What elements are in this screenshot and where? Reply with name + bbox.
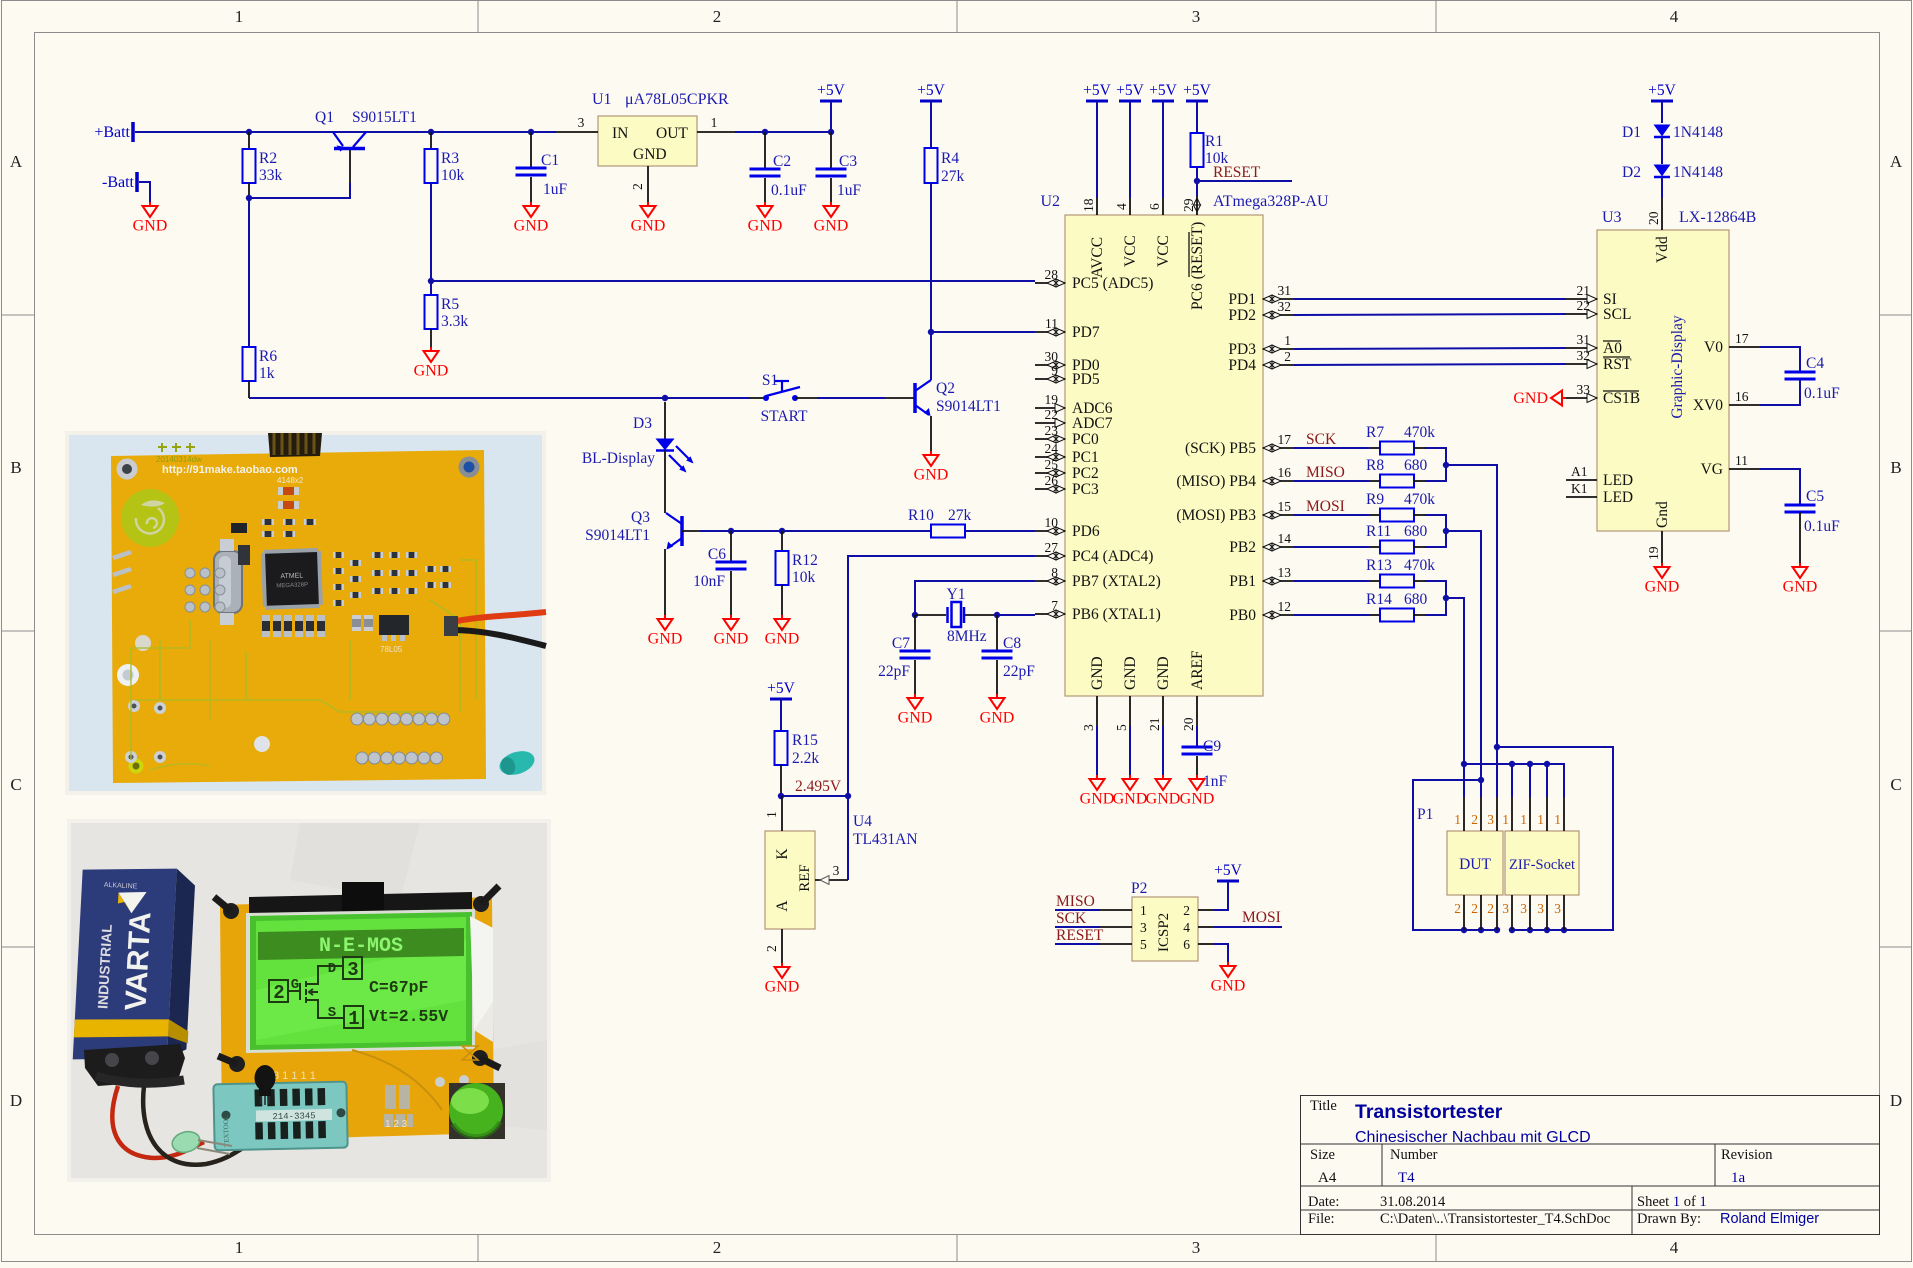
ground U4: [781, 963, 783, 967]
svg-text:PD5: PD5: [1072, 371, 1100, 388]
svg-text:12: 12: [1278, 599, 1292, 614]
svg-text:2: 2: [1471, 901, 1478, 916]
svg-text:U4: U4: [853, 813, 872, 830]
wire R6 to S1: [248, 381, 250, 398]
svg-text:3: 3: [1140, 920, 1147, 935]
capacitor C2: [764, 132, 766, 168]
svg-text:GND: GND: [914, 467, 949, 484]
svg-text:214-3345: 214-3345: [272, 1111, 315, 1122]
svg-text:IN: IN: [612, 125, 628, 142]
svg-text:Q3: Q3: [631, 509, 650, 526]
svg-text:20: 20: [1181, 717, 1196, 731]
svg-text:13: 13: [1278, 565, 1292, 580]
ground C2: [764, 202, 766, 206]
resistor R12: [781, 531, 783, 551]
svg-text:GND: GND: [1155, 656, 1172, 690]
U2 pin 14 PB2: [1263, 546, 1294, 548]
svg-text:Number: Number: [1390, 1147, 1438, 1163]
wire SI net: [1294, 298, 1566, 300]
U2 pin 13 PB1: [1263, 580, 1294, 582]
svg-text:32: 32: [1577, 348, 1591, 363]
wire R9/R11 node to DUT pin 2: [1425, 515, 1446, 547]
svg-text:ADC7: ADC7: [1072, 415, 1113, 432]
node C2 junction: [762, 129, 768, 135]
U2 pin 5 GND: [1129, 696, 1131, 726]
svg-text:4148x2: 4148x2: [277, 476, 304, 485]
ground C9/AREF: [1196, 775, 1198, 779]
ground C3: [830, 202, 832, 206]
svg-text:1a: 1a: [1731, 1170, 1746, 1186]
svg-text:RESET: RESET: [1213, 164, 1261, 181]
svg-text:1N4148: 1N4148: [1673, 164, 1723, 181]
svg-text:10k: 10k: [441, 167, 465, 184]
resistor R4: [925, 148, 938, 183]
ground U2 pin3: [1096, 775, 1098, 779]
svg-text:LX-12864B: LX-12864B: [1679, 209, 1756, 226]
svg-text:Revision: Revision: [1721, 1147, 1773, 1163]
wire R7/R8 node to DUT pin 3: [1425, 448, 1446, 481]
wire +Batt to U1 IN: [135, 131, 556, 133]
svg-text:S9015LT1: S9015LT1: [352, 109, 417, 126]
wire Q3 emitter to ground: [664, 549, 666, 615]
node R4/PD7 junction: [928, 329, 934, 335]
svg-text:20: 20: [1646, 211, 1661, 225]
svg-text:PD6: PD6: [1072, 523, 1100, 540]
svg-text:10k: 10k: [792, 569, 816, 586]
svg-text:G: G: [291, 977, 299, 993]
svg-text:S9014LT1: S9014LT1: [585, 527, 650, 544]
svg-text:C=67pF: C=67pF: [369, 978, 428, 997]
U2 pin 7 PB6 (XTAL1): [1035, 613, 1065, 615]
svg-text:D2: D2: [1622, 164, 1641, 181]
svg-text:1 2 3: 1 2 3: [385, 1119, 408, 1130]
node R3/R5/PC5 junction: [428, 278, 434, 284]
svg-text:27k: 27k: [948, 507, 972, 524]
svg-text:C7: C7: [892, 635, 910, 652]
svg-text:+5V: +5V: [1214, 862, 1242, 879]
svg-text:AVCC: AVCC: [1089, 237, 1106, 278]
svg-text:29: 29: [1181, 198, 1196, 212]
U2 pin 10 PD6: [1035, 530, 1065, 532]
wire PC5 net: [431, 280, 1035, 282]
svg-text:K: K: [774, 848, 791, 860]
P1 top pin 1: [1529, 797, 1531, 831]
wire R13/R14 node to DUT pin 1: [1425, 581, 1446, 615]
svg-text:+5V: +5V: [1116, 82, 1144, 99]
U2 pin 1 PD3: [1263, 348, 1294, 350]
P1 bottom pin 3: [1529, 895, 1531, 930]
svg-text:PB2: PB2: [1229, 539, 1256, 556]
svg-text:GND: GND: [748, 218, 783, 235]
U3 pin 11 VG: [1729, 468, 1760, 470]
svg-text:PC2: PC2: [1072, 465, 1099, 482]
P1 top pin 1: [1511, 797, 1513, 831]
svg-text:SCK: SCK: [1306, 431, 1337, 448]
svg-text:ATmega328P-AU: ATmega328P-AU: [1213, 193, 1329, 210]
svg-text:5: 5: [1140, 937, 1147, 952]
svg-text:+5V: +5V: [1648, 82, 1676, 99]
svg-text:3.3k: 3.3k: [441, 313, 468, 330]
svg-text:C5: C5: [1806, 488, 1824, 505]
svg-text:2: 2: [630, 183, 645, 190]
svg-text:SCK: SCK: [1056, 910, 1087, 927]
wire PB6 net: [997, 614, 1035, 616]
svg-text:+5V: +5V: [817, 82, 845, 99]
svg-text:0.1uF: 0.1uF: [1804, 518, 1840, 535]
svg-text:GND: GND: [414, 363, 449, 380]
wire Q3 base net: [682, 530, 700, 532]
svg-text:R9: R9: [1366, 491, 1384, 508]
svg-text:MISO: MISO: [1306, 464, 1345, 481]
svg-text:GND: GND: [1645, 579, 1680, 596]
svg-text:3: 3: [1487, 812, 1494, 827]
svg-text:AREF: AREF: [1189, 650, 1206, 690]
svg-text:Title: Title: [1310, 1098, 1337, 1114]
resistor R14: [1294, 614, 1369, 616]
P2 pin 4: [1198, 926, 1214, 928]
svg-text:U2: U2: [1040, 193, 1060, 210]
svg-text:2: 2: [1454, 901, 1461, 916]
node D3 junction: [662, 395, 668, 401]
svg-text:14: 14: [1278, 531, 1292, 546]
U1 pin 3: [556, 131, 598, 133]
svg-text:19: 19: [1646, 546, 1661, 560]
svg-text:7: 7: [1051, 598, 1058, 613]
svg-text:GND: GND: [133, 218, 168, 235]
svg-text:GND: GND: [1180, 791, 1215, 808]
svg-text:Date:: Date:: [1308, 1194, 1339, 1210]
capacitor C9: [1196, 726, 1198, 746]
ground U2 pin21: [1162, 775, 1164, 779]
svg-text:R5: R5: [441, 296, 459, 313]
svg-text:VG: VG: [1701, 461, 1723, 478]
svg-text:ZIF-Socket: ZIF-Socket: [1509, 857, 1575, 873]
wire R3 bottom to R5 / PC5 node: [430, 183, 432, 295]
svg-text:17: 17: [1735, 331, 1749, 346]
svg-text:3: 3: [1192, 1238, 1201, 1257]
ground U1: [647, 202, 649, 206]
svg-text:Size: Size: [1310, 1147, 1335, 1163]
U3 pin 21 SI: [1566, 298, 1597, 300]
svg-text:PC4 (ADC4): PC4 (ADC4): [1072, 548, 1153, 565]
svg-text:GND: GND: [631, 218, 666, 235]
svg-text:MISO: MISO: [1056, 893, 1095, 910]
U2 pin 27 PC4 (ADC4): [1035, 555, 1065, 557]
svg-text:4: 4: [1670, 7, 1679, 26]
svg-text:1N4148: 1N4148: [1673, 124, 1723, 141]
svg-text:16: 16: [1735, 389, 1749, 404]
svg-text:File:: File:: [1308, 1211, 1335, 1227]
resistor R1: [1191, 133, 1204, 167]
U2 pin 16 (MISO) PB4: [1263, 480, 1294, 482]
svg-text:3: 3: [347, 959, 358, 981]
svg-text:OUT: OUT: [656, 125, 688, 142]
wire D2 to U3 Vdd: [1661, 177, 1663, 198]
svg-text:22pF: 22pF: [1003, 663, 1035, 680]
svg-text:+5V: +5V: [1083, 82, 1111, 99]
svg-text:A1: A1: [1571, 464, 1588, 479]
P1 bottom pin 3: [1511, 895, 1513, 930]
svg-text:1: 1: [1520, 812, 1527, 827]
P1 top pin 1: [1463, 797, 1465, 831]
wire DUT bottom bus: [1461, 927, 1467, 933]
U2 pin 15 (MOSI) PB3: [1263, 514, 1294, 516]
svg-text:3: 3: [1537, 901, 1544, 916]
U3 pin 31 A0: [1566, 347, 1597, 349]
svg-text:25: 25: [1045, 457, 1059, 472]
svg-text:27: 27: [1045, 540, 1059, 555]
resistor R11: [1294, 546, 1369, 548]
svg-text:26: 26: [1045, 473, 1059, 488]
svg-text:11: 11: [1045, 316, 1058, 331]
P1 top pin 1: [1546, 797, 1548, 831]
svg-text:C2: C2: [773, 153, 791, 170]
svg-text:GND: GND: [1089, 656, 1106, 690]
svg-text:GND: GND: [714, 631, 749, 648]
node R2/R6/Q1-base junction: [246, 195, 252, 201]
U2 pin 21 GND: [1162, 696, 1164, 726]
svg-text:1: 1: [764, 811, 779, 818]
ground C8: [996, 694, 998, 698]
svg-text:19: 19: [1045, 392, 1059, 407]
svg-text:(SCK) PB5: (SCK) PB5: [1185, 440, 1256, 457]
node R12 junction: [779, 528, 785, 534]
wire -Batt to ground: [139, 182, 150, 202]
svg-text:1: 1: [235, 1238, 244, 1257]
capacitor C6: [730, 531, 732, 561]
svg-text:VARTA: VARTA: [119, 911, 157, 1011]
svg-text:R7: R7: [1366, 424, 1384, 441]
svg-text:PD1: PD1: [1228, 291, 1256, 308]
svg-text:10: 10: [1045, 515, 1059, 530]
svg-text:ATMEL: ATMEL: [280, 572, 303, 580]
wire GND pins: [1096, 726, 1098, 775]
wire S1 to Q2 base: [795, 397, 817, 399]
svg-text:18: 18: [1081, 198, 1096, 212]
U2 pin 28 PC5 (ADC5): [1035, 282, 1065, 284]
svg-text:21: 21: [1577, 283, 1591, 298]
svg-text:SCL: SCL: [1603, 306, 1631, 323]
ground R5: [430, 347, 432, 351]
svg-text:1nF: 1nF: [1203, 773, 1228, 790]
svg-text:P2: P2: [1131, 880, 1147, 897]
svg-text:680: 680: [1404, 523, 1428, 540]
photo: PCB back side: [65, 431, 546, 795]
svg-text:K1: K1: [1571, 481, 1588, 496]
svg-text:1: 1: [1284, 333, 1291, 348]
P1 top pin 2: [1480, 797, 1482, 831]
svg-text:+5V: +5V: [1183, 82, 1211, 99]
U3 pin K1 LED: [1566, 496, 1597, 498]
svg-text:10nF: 10nF: [693, 573, 725, 590]
node C3 junction: [828, 129, 834, 135]
svg-text:VCC: VCC: [1155, 235, 1172, 267]
U4 pin 3: [815, 879, 848, 881]
svg-text:3: 3: [1192, 7, 1201, 26]
U3 pin 22 SCL: [1566, 313, 1597, 315]
svg-text:LED: LED: [1603, 472, 1633, 489]
svg-text:6: 6: [1147, 203, 1162, 210]
svg-text:Gnd: Gnd: [1654, 501, 1671, 528]
svg-text:Sheet 1 of 1: Sheet 1 of 1: [1637, 1194, 1707, 1210]
wire probe1 to ZIF top pins: [1461, 761, 1467, 767]
svg-text:3: 3: [833, 863, 840, 878]
svg-text:S9014LT1: S9014LT1: [936, 398, 1001, 415]
connector P1 ZIF-Socket: [1505, 831, 1579, 895]
svg-text:REF: REF: [797, 864, 813, 892]
svg-text:1: 1: [711, 115, 718, 130]
svg-text:2: 2: [713, 7, 722, 26]
ground C7: [914, 694, 916, 698]
wire ZIF bottom bus: [1512, 929, 1613, 931]
wire PB7 to crystal: [915, 581, 1035, 615]
svg-text:1k: 1k: [259, 365, 275, 382]
svg-text:PB7 (XTAL2): PB7 (XTAL2): [1072, 573, 1161, 590]
svg-text:2: 2: [1471, 812, 1478, 827]
node C8 junction: [994, 612, 1000, 618]
wire MISO: [1055, 909, 1100, 911]
svg-text:8: 8: [1051, 565, 1058, 580]
wire ZIF top drop: [1527, 761, 1533, 767]
svg-text:R10: R10: [908, 507, 934, 524]
svg-text:PD4: PD4: [1228, 357, 1256, 374]
U1 pin 1: [697, 131, 735, 133]
svg-text:C: C: [10, 775, 21, 794]
U2 pin 24 PC1: [1035, 456, 1065, 458]
svg-text:DUT: DUT: [1459, 856, 1491, 873]
svg-text:(MOSI) PB3: (MOSI) PB3: [1176, 507, 1256, 524]
P1 bottom pin 2: [1480, 895, 1482, 930]
svg-text:3: 3: [578, 115, 585, 130]
U2 pin 25 PC2: [1035, 472, 1065, 474]
svg-text:PD7: PD7: [1072, 324, 1100, 341]
ground C6: [730, 615, 732, 619]
U2 pin 4 VCC: [1129, 198, 1131, 215]
svg-text:2: 2: [764, 945, 779, 952]
svg-text:22: 22: [1577, 298, 1591, 313]
svg-text:D3: D3: [633, 415, 652, 432]
U1 pin 2: [647, 166, 649, 202]
svg-text:2.2k: 2.2k: [792, 750, 819, 767]
svg-text:PB6 (XTAL1): PB6 (XTAL1): [1072, 606, 1161, 623]
svg-text:U3: U3: [1602, 209, 1622, 226]
U3 pin 17 V0: [1729, 346, 1760, 348]
svg-text:3: 3: [1502, 901, 1509, 916]
U2 pin 22 ADC7: [1035, 422, 1065, 424]
wire U1 OUT to +5V rail: [735, 131, 831, 133]
svg-text:23: 23: [1045, 423, 1059, 438]
svg-text:R6: R6: [259, 348, 277, 365]
svg-text:D1: D1: [1622, 124, 1641, 141]
wire ZIF top drop: [1544, 761, 1550, 767]
U2 pin 9 PD5: [1035, 378, 1065, 380]
svg-text:9: 9: [1051, 363, 1058, 378]
svg-text:4: 4: [1670, 1238, 1679, 1257]
svg-text:31: 31: [1278, 283, 1292, 298]
svg-text:μA78L05CPKR: μA78L05CPKR: [625, 91, 729, 108]
svg-text:Vt=2.55V: Vt=2.55V: [369, 1007, 448, 1026]
svg-text:+5V: +5V: [917, 82, 945, 99]
svg-text:GND: GND: [1146, 791, 1181, 808]
node Y1 left junction: [912, 612, 918, 618]
svg-text:680: 680: [1404, 457, 1428, 474]
node C1 junction: [528, 129, 534, 135]
ground U3: [1661, 563, 1663, 567]
svg-text:C4: C4: [1806, 355, 1824, 372]
svg-text:-Batt: -Batt: [102, 174, 135, 191]
svg-text:R12: R12: [792, 552, 818, 569]
svg-text:B: B: [10, 458, 21, 477]
svg-text:+5V: +5V: [1149, 82, 1177, 99]
svg-text:2: 2: [713, 1238, 722, 1257]
U2 pin 18 AVCC: [1096, 198, 1098, 215]
svg-text:R2: R2: [259, 150, 277, 167]
svg-text:R13: R13: [1366, 557, 1392, 574]
svg-text:8MHz: 8MHz: [947, 628, 987, 645]
node C6 junction: [728, 528, 734, 534]
svg-text:0.1uF: 0.1uF: [1804, 385, 1840, 402]
resistor R3: [430, 132, 432, 149]
svg-text:C9: C9: [1203, 738, 1221, 755]
svg-text:4: 4: [1114, 203, 1129, 210]
svg-text:33k: 33k: [259, 167, 283, 184]
svg-text:31: 31: [1577, 332, 1591, 347]
wire ICSP gnd: [1214, 944, 1228, 962]
svg-text:1uF: 1uF: [837, 182, 862, 199]
svg-text:PD2: PD2: [1228, 307, 1256, 324]
P1 bottom pin 3: [1563, 895, 1565, 930]
svg-text:A: A: [774, 900, 791, 912]
svg-text:PD3: PD3: [1228, 341, 1256, 358]
svg-text:GND: GND: [1080, 791, 1115, 808]
svg-text:Y1: Y1: [947, 586, 966, 603]
svg-text:P1: P1: [1417, 806, 1433, 823]
ground P2: [1227, 962, 1229, 966]
wire A0 net: [1294, 348, 1566, 349]
P1 top pin 1: [1563, 797, 1565, 831]
capacitor C7: [914, 615, 916, 650]
U2 pin 6 VCC: [1162, 198, 1164, 215]
wire RESET stub: [1197, 180, 1292, 182]
resistor R5: [425, 295, 438, 329]
svg-text:Q1: Q1: [315, 109, 334, 126]
svg-text:XV0: XV0: [1693, 397, 1723, 414]
svg-text:78L05: 78L05: [380, 645, 403, 654]
svg-text:21: 21: [1147, 718, 1162, 732]
svg-text:6: 6: [1183, 937, 1190, 952]
P1 bottom pin 3: [1546, 895, 1548, 930]
P1 bottom pin 2: [1463, 895, 1465, 930]
U2 pin 19 ADC6: [1035, 407, 1065, 409]
U3 pin 19 Gnd: [1661, 531, 1663, 563]
svg-text:RESET: RESET: [1056, 927, 1104, 944]
svg-text:680: 680: [1404, 591, 1428, 608]
svg-text:20140314dw: 20140314dw: [156, 455, 202, 464]
svg-text:3: 3: [1554, 901, 1561, 916]
capacitor C4: [1760, 347, 1800, 371]
wire Q1 base to R2/R6 node: [349, 150, 351, 183]
wire R2 bottom to R6: [248, 198, 250, 347]
svg-text:R3: R3: [441, 150, 459, 167]
svg-text:2: 2: [1487, 901, 1494, 916]
svg-text:PC3: PC3: [1072, 481, 1099, 498]
P1 top pin 3: [1496, 797, 1498, 831]
svg-text:V0: V0: [1704, 339, 1723, 356]
ground C5: [1799, 563, 1801, 567]
svg-text:A: A: [1890, 152, 1903, 171]
resistor R6: [243, 347, 256, 381]
U2 pin 30 PD0: [1035, 364, 1065, 366]
